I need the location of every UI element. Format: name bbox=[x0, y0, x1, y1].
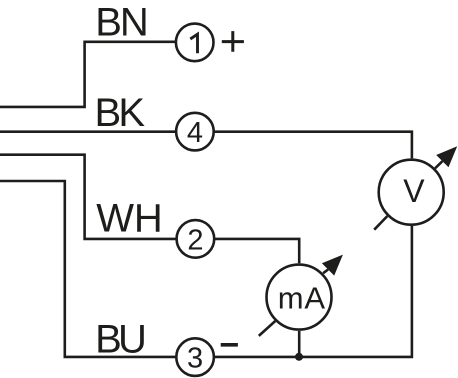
wire bottom bus to voltmeter bbox=[214, 226, 412, 357]
svg-text:V: V bbox=[403, 173, 425, 209]
svg-text:mA: mA bbox=[278, 280, 326, 315]
wire milliammeter to bus bbox=[298, 331, 301, 357]
wire BU bbox=[0, 181, 176, 357]
wire BK left bbox=[0, 130, 176, 133]
polarity + bbox=[222, 31, 244, 52]
terminal 1 bbox=[176, 24, 214, 62]
polarity - bbox=[221, 343, 238, 347]
wire WH bbox=[0, 155, 177, 239]
svg-text:BN: BN bbox=[95, 0, 147, 44]
svg-text:4: 4 bbox=[187, 117, 203, 149]
milliammeter mA bbox=[259, 255, 343, 336]
svg-text:3: 3 bbox=[187, 343, 203, 375]
svg-text:WH: WH bbox=[96, 196, 162, 240]
voltmeter V bbox=[374, 146, 457, 229]
svg-text:BU: BU bbox=[95, 317, 144, 361]
terminal 3 bbox=[176, 338, 214, 376]
wire WH right to milliammeter bbox=[214, 239, 299, 263]
junction bbox=[295, 353, 303, 361]
terminal 4 bbox=[176, 113, 214, 151]
wire BN bbox=[0, 42, 176, 107]
wire BK right to voltmeter bbox=[214, 132, 412, 159]
terminal 2 bbox=[177, 220, 215, 258]
svg-text:BK: BK bbox=[95, 91, 146, 135]
svg-text:2: 2 bbox=[187, 225, 203, 257]
